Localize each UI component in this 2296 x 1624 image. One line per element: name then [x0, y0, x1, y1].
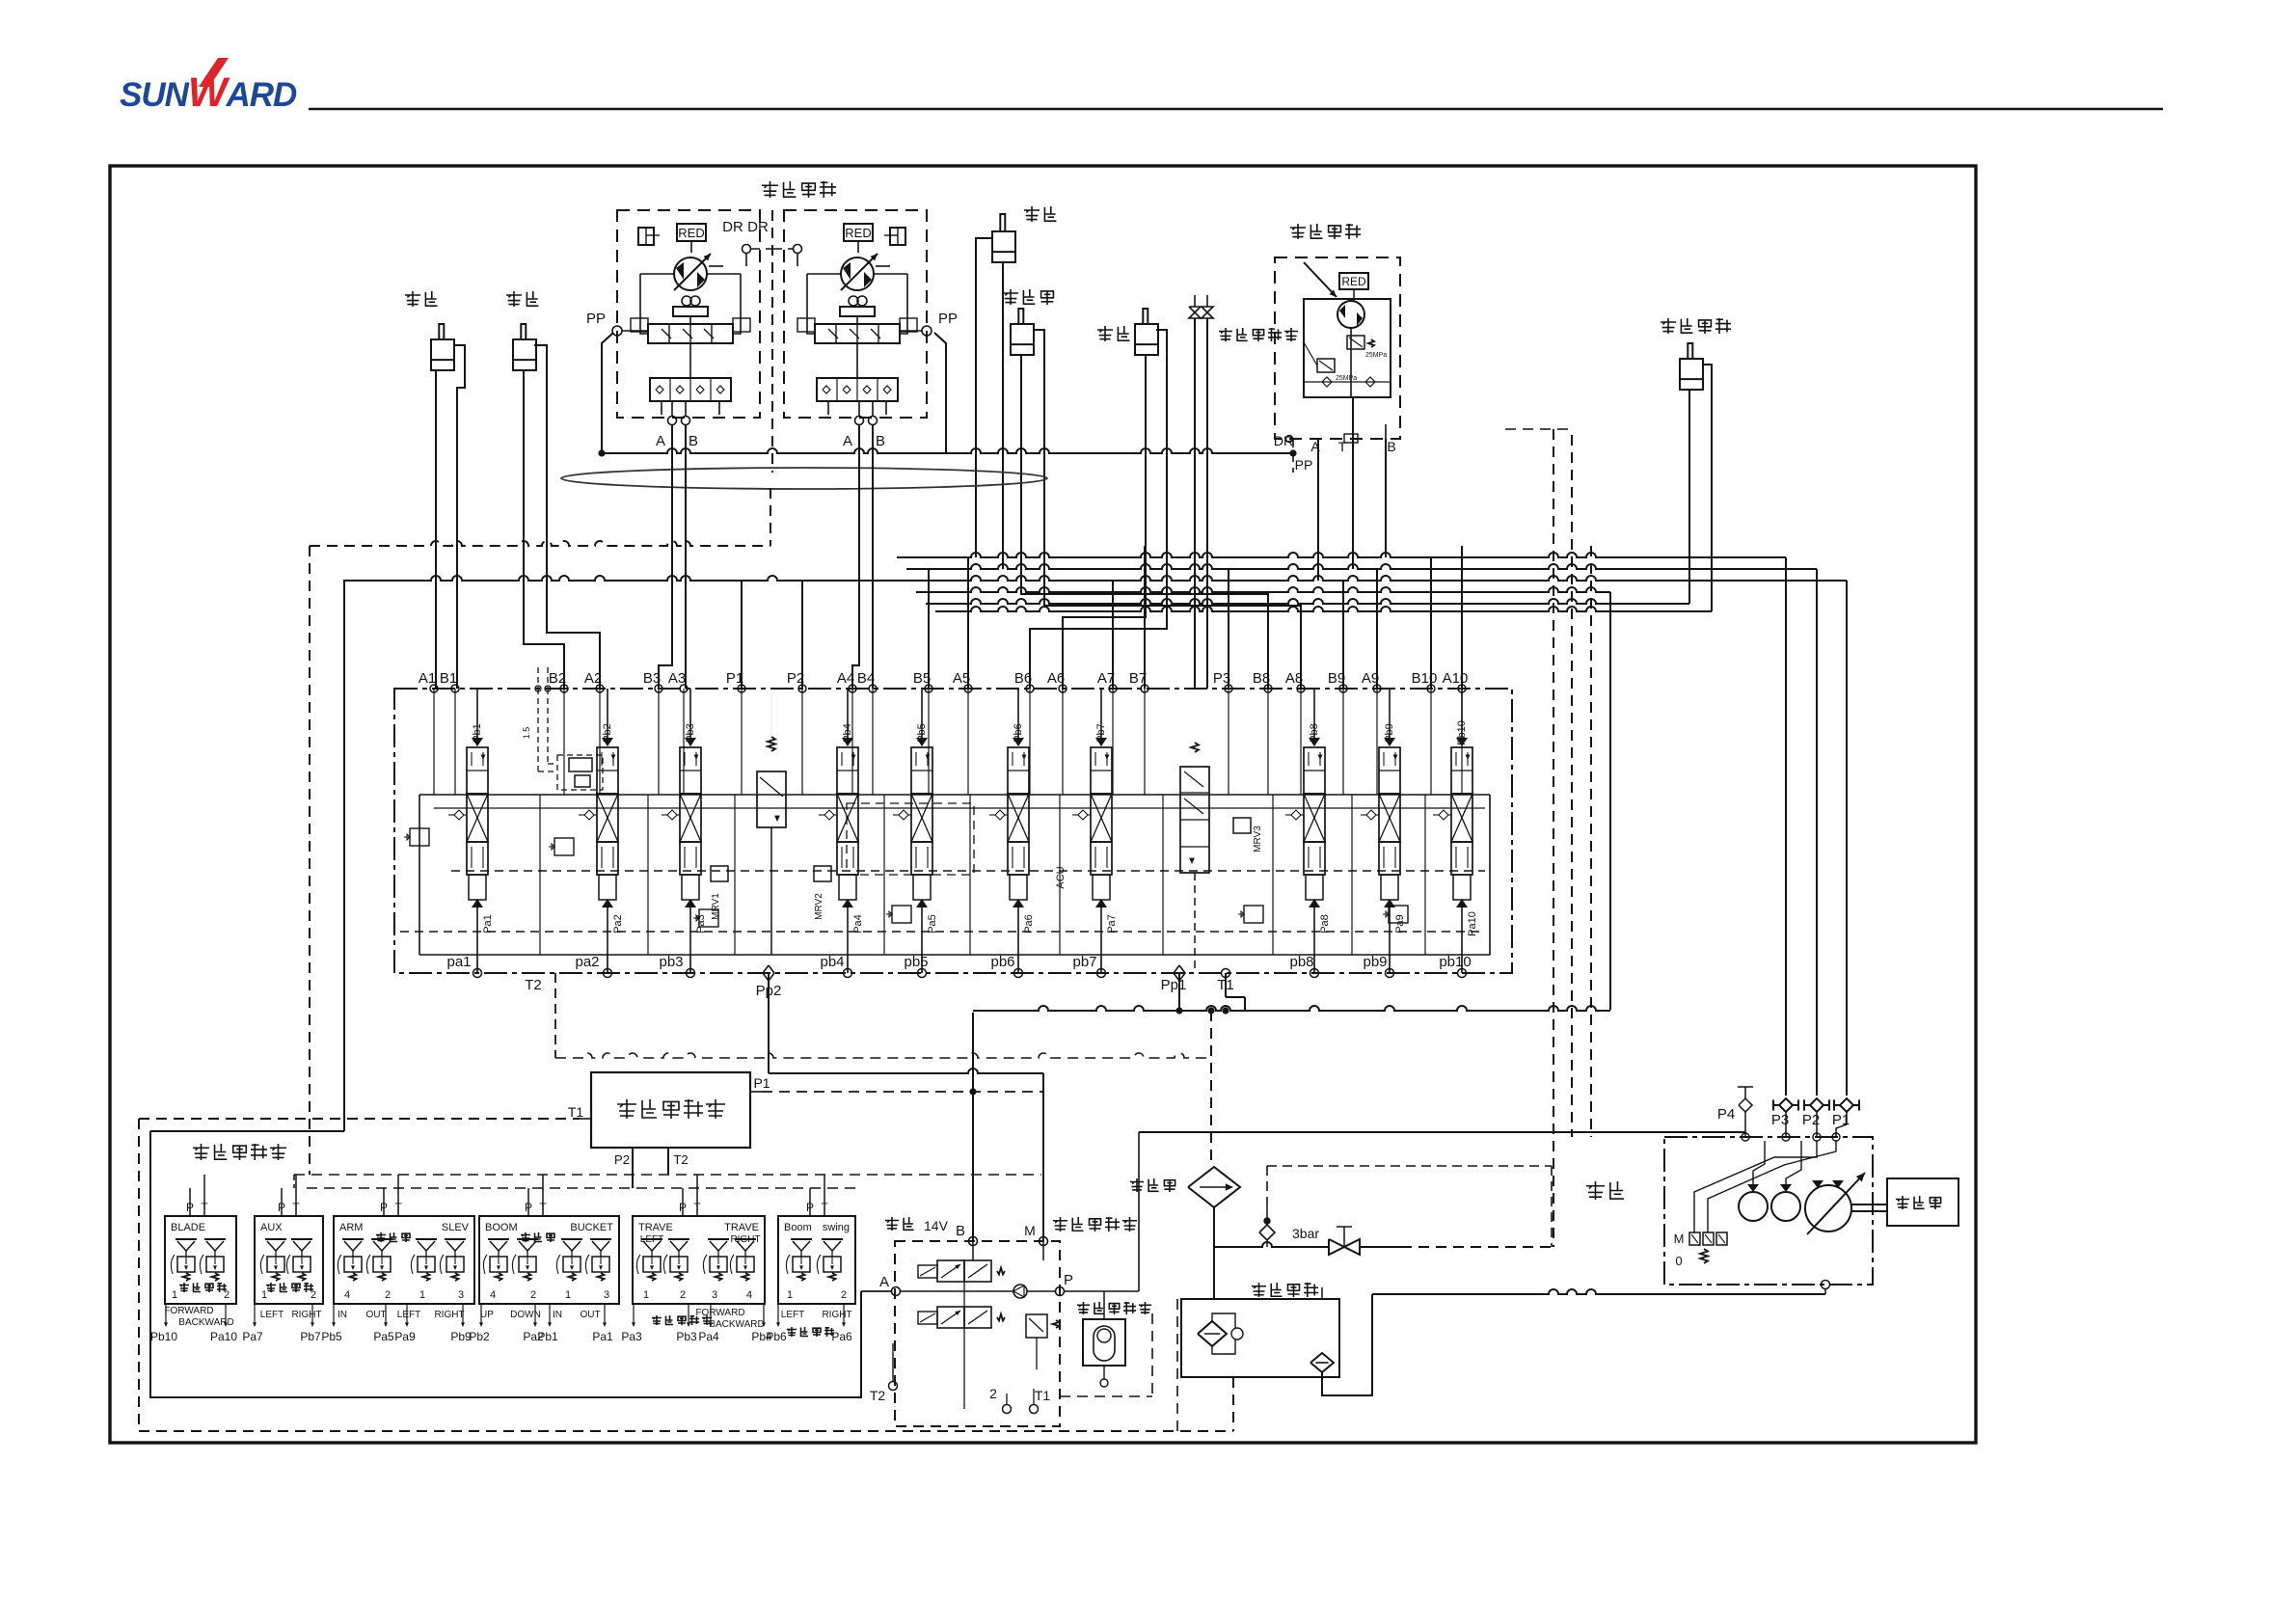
pump variable main stage [1805, 1185, 1851, 1232]
svg-text:Pb2: Pb2 [602, 723, 613, 743]
svg-text:2: 2 [530, 1289, 536, 1301]
svg-text:P4: P4 [1717, 1106, 1735, 1123]
svg-text:Pa6: Pa6 [831, 1330, 852, 1343]
svg-text:Pb9: Pb9 [1384, 723, 1395, 743]
pilot source label [1053, 1217, 1067, 1232]
svg-text:2: 2 [841, 1289, 847, 1301]
solenoid valve 1 [937, 1260, 964, 1282]
tank supply line [1214, 1242, 1329, 1247]
svg-text:FORWARD: FORWARD [695, 1308, 744, 1318]
svg-text:3bar: 3bar [1292, 1226, 1319, 1241]
svg-text:ACU: ACU [1055, 866, 1067, 888]
valve block internal galleries [419, 794, 1490, 796]
MRV3 relief [1233, 818, 1251, 833]
svg-text:B3: B3 [643, 670, 661, 687]
svg-text:B8: B8 [1253, 670, 1270, 687]
3bar dashed branch [1266, 1166, 1268, 1204]
valve section spool 4 [842, 738, 853, 746]
P1 dashed pilot supply [762, 1091, 1043, 1093]
travel motor hydraulic motor [674, 257, 707, 290]
travel motor internal lines [689, 343, 691, 378]
valve section spool 6 [1013, 738, 1024, 746]
svg-text:Pb6: Pb6 [1013, 723, 1024, 743]
svg-text:DOWN: DOWN [510, 1310, 541, 1320]
svg-text:MRV2: MRV2 [814, 893, 824, 920]
travel motor brake [638, 228, 654, 245]
pilot dashed drain bus [310, 541, 770, 546]
left pilot return loop [150, 1131, 861, 1397]
svg-text:1: 1 [419, 1289, 425, 1301]
svg-text:Pa2: Pa2 [612, 914, 624, 934]
boom swing cylinder 动臂偏转 [1661, 318, 1676, 334]
svg-text:1: 1 [787, 1289, 793, 1301]
swing motor dashed enclosure [1275, 257, 1400, 439]
pump regulator ports [1689, 1232, 1700, 1245]
tank return from pump drain [1372, 1289, 1825, 1294]
svg-text:Pa10: Pa10 [210, 1330, 237, 1343]
svg-text:1: 1 [172, 1289, 177, 1301]
valve section spool 7 [1095, 738, 1107, 746]
border frame [110, 166, 1976, 1443]
svg-text:P1: P1 [753, 1075, 770, 1091]
svg-text:Pa3: Pa3 [695, 914, 707, 934]
radiator 散热器 [1130, 1178, 1144, 1192]
svg-text:Pa7: Pa7 [242, 1330, 263, 1343]
svg-text:B5: B5 [913, 670, 931, 687]
svg-text:RED: RED [1341, 275, 1366, 288]
pilot valve box ('Boom', 'swing') [778, 1216, 855, 1304]
svg-text:BUCKET: BUCKET [570, 1222, 613, 1233]
svg-text:A5: A5 [953, 670, 970, 687]
svg-text:P: P [1064, 1272, 1073, 1288]
bucket cylinder 铲斗 [405, 291, 420, 307]
source relief valve [1026, 1314, 1047, 1338]
main control valve block boundary [394, 689, 1512, 973]
section sub valves [410, 828, 429, 846]
svg-text:A3: A3 [668, 670, 686, 687]
svg-text:1: 1 [261, 1289, 267, 1301]
boom cylinder lines to B2 A2 [524, 370, 564, 689]
svg-text:T2: T2 [870, 1388, 886, 1403]
pilot box output ports [480, 1304, 482, 1323]
svg-text:B: B [876, 433, 885, 449]
svg-text:B7: B7 [1129, 670, 1147, 687]
travel motor internal lines [856, 343, 858, 378]
travel motor PP port [922, 326, 932, 336]
wire bundle line 6 [935, 607, 1712, 611]
left riser dashed [309, 546, 311, 1119]
svg-text:PP: PP [938, 311, 958, 327]
valve section spool 8 [1309, 738, 1320, 746]
pump gear stages [1739, 1192, 1768, 1221]
svg-text:LEFT: LEFT [397, 1310, 420, 1320]
svg-text:Pa10: Pa10 [1467, 911, 1478, 936]
svg-text:RIGHT: RIGHT [730, 1234, 760, 1245]
svg-text:RIGHT: RIGHT [291, 1310, 321, 1320]
left riser solid [343, 581, 345, 1131]
swing motor anti-cavitation checks [1322, 377, 1332, 387]
Pp2 drop and M supply line [769, 1069, 1043, 1073]
valve block internal port risers [433, 689, 435, 795]
cylinder body [1011, 324, 1034, 355]
tank breather filter [1310, 1353, 1334, 1372]
svg-text:Pb3: Pb3 [676, 1330, 697, 1343]
svg-text:T1: T1 [568, 1104, 584, 1120]
svg-text:Pb1: Pb1 [537, 1330, 558, 1343]
svg-text:Pa1: Pa1 [592, 1330, 613, 1343]
svg-text:Pa9: Pa9 [1394, 914, 1406, 934]
travel motor dashed enclosure [617, 210, 760, 418]
arm cylinder lines [1063, 355, 1146, 689]
cylinder body [1680, 359, 1703, 390]
svg-text:A6: A6 [1047, 670, 1065, 687]
pump port stubs [1744, 1112, 1746, 1137]
svg-text:B10: B10 [1412, 670, 1438, 687]
travel motor A port [855, 417, 864, 425]
svg-text:Pb7: Pb7 [300, 1330, 321, 1343]
travel motor two-speed piston [682, 296, 691, 306]
stub drops to valve ports [741, 581, 743, 689]
valve block top port labels [430, 685, 438, 692]
voltage label 电压 14V [885, 1217, 899, 1231]
main pump dashed enclosure [1664, 1137, 1873, 1285]
pilot valve box AUX [255, 1216, 323, 1304]
svg-text:1: 1 [643, 1289, 649, 1301]
svg-text:B6: B6 [1014, 670, 1032, 687]
wire bundle line 2 [906, 564, 1817, 569]
svg-text:M: M [1024, 1223, 1036, 1238]
3bar check valve [1264, 1218, 1270, 1224]
svg-text:3: 3 [712, 1289, 717, 1301]
T1 port [1222, 969, 1230, 978]
svg-text:Boom: Boom [784, 1222, 812, 1233]
svg-text:pb9: pb9 [1363, 954, 1387, 970]
svg-text:Pb10: Pb10 [1456, 720, 1468, 745]
splitter bottom ports [632, 1148, 634, 1188]
logo red swoosh [199, 58, 229, 87]
svg-text:MRV3: MRV3 [1253, 826, 1263, 853]
svg-text:4: 4 [344, 1289, 350, 1301]
junction dots [1176, 1008, 1182, 1014]
svg-text:P1: P1 [726, 670, 743, 687]
boost check dashed columns [535, 686, 541, 691]
svg-text:pb3: pb3 [659, 954, 683, 970]
pilot valve box ('BOOM', 'BUCKET') [479, 1216, 619, 1304]
right dashed risers [1553, 429, 1554, 1247]
breaker/aux valves 破碎/辅助 [1189, 307, 1201, 318]
svg-text:OUT: OUT [365, 1310, 386, 1320]
svg-text:25MPa: 25MPa [1365, 352, 1387, 359]
svg-text:pb6: pb6 [990, 954, 1014, 970]
drain dashed line between motors [771, 210, 773, 473]
telescopic cylinder lines [976, 238, 992, 557]
svg-text:IN: IN [338, 1310, 347, 1320]
svg-text:A4: A4 [837, 670, 854, 687]
travel motor shuttle block [817, 378, 898, 401]
cylinder body [992, 231, 1015, 262]
svg-text:Pa9: Pa9 [394, 1330, 416, 1343]
svg-text:SLEV: SLEV [442, 1222, 470, 1233]
T1 dashed line left [139, 1118, 580, 1120]
pilot dashed bus above splitter [555, 1053, 1211, 1058]
T return line to right riser [973, 1006, 1610, 1011]
svg-text:swing: swing [823, 1222, 850, 1233]
main relief valve center-left [768, 737, 775, 751]
svg-text:RED: RED [678, 226, 704, 240]
svg-text:LEFT: LEFT [640, 1234, 663, 1245]
travel motor hydraulic motor [841, 257, 874, 290]
svg-text:pa2: pa2 [575, 954, 599, 970]
svg-text:14V: 14V [924, 1218, 949, 1233]
svg-text:Pp1: Pp1 [1161, 977, 1187, 993]
svg-text:2: 2 [680, 1289, 686, 1301]
swing motor relief valves [1347, 336, 1364, 349]
svg-text:A2: A2 [584, 670, 602, 687]
svg-text:A: A [879, 1274, 889, 1290]
PP pilot cross line [602, 333, 613, 453]
svg-text:AUX: AUX [260, 1222, 283, 1233]
boom cylinder 动臂 [506, 291, 522, 307]
svg-text:PP: PP [586, 311, 606, 327]
svg-text:Pb6: Pb6 [766, 1330, 787, 1343]
valve block internal dashed lines [451, 870, 1485, 872]
svg-text:pb7: pb7 [1072, 954, 1096, 970]
travel motor right port drops [852, 424, 859, 689]
svg-text:Pa5: Pa5 [927, 914, 938, 934]
svg-text:T1: T1 [1035, 1388, 1051, 1403]
travel motor counterbalance valve [815, 324, 900, 343]
svg-text:Pb7: Pb7 [1095, 723, 1107, 743]
svg-text:Pa3: Pa3 [621, 1330, 642, 1343]
pilot box output ports [254, 1304, 256, 1323]
svg-text:RIGHT: RIGHT [822, 1310, 851, 1320]
svg-text:TRAVE: TRAVE [724, 1222, 759, 1233]
svg-text:B: B [689, 433, 698, 449]
pilot valve box ('TRAVE', 'TRAVE') [633, 1216, 765, 1304]
svg-text:PP: PP [1295, 457, 1313, 473]
check valve to P [1013, 1285, 1027, 1298]
svg-text:pb8: pb8 [1289, 954, 1313, 970]
unloading valve center-right [1180, 767, 1209, 873]
label travel motors 行走马达 [762, 181, 778, 198]
svg-text:P2: P2 [614, 1152, 630, 1167]
svg-text:pb5: pb5 [904, 954, 928, 970]
telescopic cylinder 伸缩 [1024, 206, 1040, 222]
pilot box output ports [633, 1304, 635, 1323]
svg-text:M: M [1674, 1232, 1685, 1246]
tank return loop [1322, 1294, 1372, 1395]
svg-text:4: 4 [746, 1289, 752, 1301]
travel motor shuttle block [650, 378, 731, 401]
pilot accumulator 先导蓄能器 [1077, 1302, 1090, 1314]
svg-text:pa1: pa1 [446, 954, 471, 970]
travel motor RED shift valve [677, 224, 706, 241]
load sense dashed box section 5-6 [847, 803, 974, 875]
svg-text:T: T [1338, 439, 1347, 454]
svg-text:RED: RED [845, 226, 871, 240]
travel motor RED shift valve [844, 224, 873, 241]
svg-text:Pa1: Pa1 [482, 914, 494, 934]
wire bundle line 3 [343, 576, 1847, 581]
dozer cylinder 推土铲 [1003, 289, 1018, 305]
travel motor dashed enclosure [784, 210, 927, 418]
pilot source block 先导油源块 dashed enclosure [895, 1241, 1060, 1426]
swing motor label 回转马达 [1290, 224, 1306, 239]
valve section spool 2 [602, 738, 613, 746]
cylinder body [1135, 324, 1158, 355]
bucket cylinder lines to A1 B1 [435, 370, 437, 689]
svg-text:Pa4: Pa4 [698, 1330, 719, 1343]
valve block section divider verticals [539, 795, 541, 955]
svg-text:B4: B4 [857, 670, 875, 687]
travel motor left port drops [659, 424, 672, 689]
pump drain [1822, 1281, 1830, 1289]
svg-text:Pb8: Pb8 [1309, 723, 1320, 743]
svg-text:2: 2 [385, 1289, 391, 1301]
wire bundle line 5 [926, 599, 1689, 604]
pilot bus dashed lines [294, 1174, 1041, 1176]
pilot box output ports [777, 1304, 779, 1323]
svg-text:ARM: ARM [339, 1222, 363, 1233]
svg-text:B9: B9 [1328, 670, 1345, 687]
svg-text:BOOM: BOOM [485, 1222, 518, 1233]
svg-text:P3: P3 [1213, 670, 1230, 687]
travel motor PP port [612, 326, 622, 336]
swing motor RED valve [1339, 273, 1368, 289]
svg-text:pb10: pb10 [1439, 954, 1471, 970]
svg-text:B2: B2 [549, 670, 566, 687]
valve section spool 5 [916, 738, 928, 746]
swing motor hydraulic motor [1337, 301, 1364, 328]
svg-text:B: B [1387, 439, 1395, 454]
Pp2 port [763, 965, 774, 981]
svg-text:DR: DR [722, 219, 743, 235]
svg-text:A9: A9 [1362, 670, 1379, 687]
travel motor brake [890, 228, 905, 245]
svg-text:A: A [843, 433, 852, 449]
svg-text:A10: A10 [1443, 670, 1469, 687]
arm cylinder 斗杆 [1097, 326, 1113, 341]
svg-text:Pb5: Pb5 [916, 723, 928, 743]
svg-text:Pb4: Pb4 [842, 723, 853, 743]
svg-text:3: 3 [604, 1289, 609, 1301]
svg-text:Pa5: Pa5 [373, 1330, 394, 1343]
svg-text:IN: IN [553, 1310, 562, 1320]
svg-text:TRAVE: TRAVE [638, 1222, 673, 1233]
pump shaft [1851, 1204, 1887, 1205]
valve block bottom port labels [473, 969, 482, 978]
solenoid valve 2 [937, 1307, 964, 1328]
svg-text:MRV1: MRV1 [711, 893, 721, 920]
svg-text:Pb1: Pb1 [472, 723, 483, 743]
travel motor counterbalance valve [648, 324, 733, 343]
svg-text:Pa8: Pa8 [1319, 914, 1331, 934]
svg-text:B: B [956, 1223, 965, 1239]
drain dashed bus bottom [138, 1119, 140, 1431]
valve section spool 1 [472, 738, 483, 746]
svg-text:P2: P2 [787, 670, 804, 687]
wire bundle line 1 [897, 553, 1786, 557]
boom swing cylinder lines [1688, 390, 1690, 604]
svg-text:4: 4 [490, 1289, 496, 1301]
valve block LS check diamonds [454, 810, 464, 820]
svg-text:Pb3: Pb3 [685, 723, 696, 743]
source internal lines [972, 1241, 974, 1260]
pump top edge ports [1742, 1133, 1749, 1141]
pump internal links [1753, 1141, 1765, 1192]
svg-text:2: 2 [989, 1386, 997, 1401]
pilot source B riser [972, 1013, 974, 1241]
pilot valve box ('ARM', 'SLEV') [334, 1216, 474, 1304]
svg-text:BLADE: BLADE [171, 1222, 205, 1233]
valve section spool 9 [1384, 738, 1395, 746]
Pp1 port [1174, 965, 1185, 981]
valve section spool 10 [1456, 738, 1468, 746]
svg-text:LEFT: LEFT [781, 1310, 804, 1320]
pilot box output ports [333, 1304, 335, 1323]
wire bundle line 4 [916, 587, 1610, 592]
right risers to pump [1785, 557, 1787, 1096]
riser T return [1609, 592, 1611, 1010]
tank suction filter [1198, 1321, 1227, 1346]
svg-text:RIGHT: RIGHT [434, 1310, 464, 1320]
svg-text:3: 3 [458, 1289, 464, 1301]
main pump label 主泵 [1586, 1181, 1605, 1200]
hydraulic tank 液压油箱 [1252, 1283, 1266, 1297]
pilot control valves label 先导控制阀 [193, 1144, 209, 1160]
svg-text:1: 1 [565, 1289, 571, 1301]
swing motor drop lines [1317, 439, 1319, 581]
dozer cylinder lines [1021, 355, 1268, 689]
shutoff valve [1329, 1239, 1360, 1255]
pilot P supply to pump P4 [1139, 1131, 1745, 1133]
svg-text:T2: T2 [673, 1152, 688, 1167]
svg-text:A8: A8 [1285, 670, 1303, 687]
travel motor A port [668, 417, 677, 425]
svg-text:1.5: 1.5 [522, 727, 531, 740]
svg-text:LEFT: LEFT [260, 1310, 284, 1320]
svg-text:Pb2: Pb2 [469, 1330, 490, 1343]
svg-text:DR: DR [747, 219, 769, 235]
svg-text:Pa4: Pa4 [852, 914, 864, 934]
pilot splitter block 先导分流块 [591, 1072, 750, 1148]
MRV2 relief [814, 866, 831, 881]
travel motor two-speed piston [849, 296, 858, 306]
svg-text:Pb10: Pb10 [150, 1330, 177, 1343]
svg-text:A1: A1 [419, 670, 436, 687]
svg-text:25MPa: 25MPa [1336, 375, 1357, 382]
radiator dashed riser [1210, 1011, 1212, 1167]
svg-text:OUT: OUT [580, 1310, 600, 1320]
svg-text:BACKWARD: BACKWARD [709, 1319, 764, 1330]
cylinder body [431, 339, 454, 370]
header rule [309, 108, 2163, 111]
svg-text:A: A [656, 433, 665, 449]
svg-text:Pa6: Pa6 [1023, 914, 1035, 934]
svg-text:0: 0 [1675, 1254, 1682, 1268]
engine box 发动机 [1887, 1178, 1958, 1226]
svg-text:Pa7: Pa7 [1106, 914, 1118, 934]
svg-text:B1: B1 [440, 670, 457, 687]
svg-text:Pb5: Pb5 [321, 1330, 342, 1343]
svg-text:UP: UP [480, 1310, 494, 1320]
pilot box output ports [165, 1304, 167, 1323]
pilot valve box BLADE [165, 1216, 236, 1304]
cylinder body [513, 339, 536, 370]
svg-text:pb4: pb4 [820, 954, 844, 970]
rotary joint ellipse [561, 468, 1047, 489]
svg-text:T2: T2 [525, 977, 542, 993]
